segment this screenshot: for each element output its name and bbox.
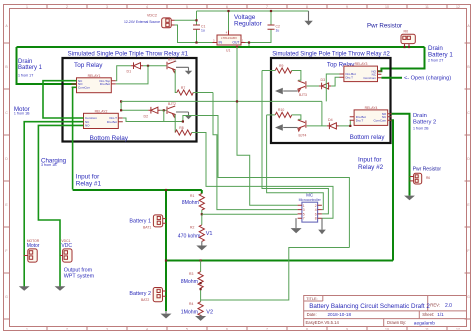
wire R1 to R2 junction	[201, 210, 203, 225]
wire R7 chain to MC pin3	[213, 93, 298, 210]
svg-text:2: 2	[66, 328, 68, 332]
svg-text:D1: D1	[127, 70, 132, 74]
wire R8 right to MC pin8 route	[192, 133, 333, 219]
relay RELAY4	[350, 106, 392, 126]
simulated relay #1 enclosure	[63, 58, 197, 142]
svg-text:8Mohm: 8Mohm	[182, 200, 199, 206]
svg-text:12: 12	[456, 5, 460, 9]
resistor R3	[181, 272, 204, 288]
svg-text:Drawn By:: Drawn By:	[387, 320, 406, 325]
svg-text:V1: V1	[206, 231, 213, 237]
svg-text:Battery 1: Battery 1	[129, 219, 151, 225]
svg-text:Input for: Input for	[76, 174, 100, 181]
svg-text:RELAY4: RELAY4	[365, 106, 378, 110]
diode D1	[127, 62, 144, 73]
resistor R1	[182, 194, 205, 211]
svg-text:Dro.Bot: Dro.Bot	[107, 120, 117, 124]
wire rail corner into R1	[201, 190, 203, 194]
svg-text:2.0: 2.0	[445, 303, 452, 309]
svg-text:RELAY2: RELAY2	[95, 109, 108, 113]
svg-text:1: 1	[26, 5, 28, 9]
svg-text:8: 8	[306, 328, 308, 332]
gray arrow net marker BJT1 collector	[175, 61, 192, 74]
wire relay1 DroBot up to D1 node	[116, 66, 148, 84]
wire BJT1 emitter down to R7	[175, 70, 177, 93]
wire connector VDC2 pin2 down to IN rail	[175, 25, 213, 43]
label Drain Battery 1 left	[18, 59, 43, 71]
wire relay2 NC to Motor	[24, 122, 83, 287]
resistor R9	[275, 64, 291, 73]
ground under pwr resistor 2	[404, 196, 415, 201]
wire R10 left through wall to channel	[267, 114, 276, 116]
svg-text:D2: D2	[144, 115, 149, 119]
wire D4 to relay4 DroT	[339, 120, 350, 126]
svg-text:BJT2: BJT2	[168, 102, 176, 106]
svg-text:Battery Balancing Circuit Sche: Battery Balancing Circuit Schematic Draf…	[309, 303, 430, 310]
svg-text:TITLE:: TITLE:	[306, 297, 317, 301]
svg-text:F: F	[467, 249, 469, 253]
svg-text:ComCom: ComCom	[363, 76, 376, 80]
svg-text:1/1: 1/1	[437, 312, 444, 317]
wire BJT3 base to D3	[307, 85, 319, 87]
wire V1 sense to MC pin5	[202, 213, 298, 215]
border zone tick marks bottom	[47, 327, 447, 331]
svg-text:BJT4: BJT4	[299, 133, 307, 137]
svg-text:R4: R4	[189, 302, 193, 306]
resistor R2	[178, 225, 213, 242]
wire loop riser to long chain	[183, 116, 350, 248]
svg-text:D4: D4	[328, 118, 333, 122]
svg-text:1Mohm: 1Mohm	[181, 309, 198, 315]
svg-text:Pwr Resistor: Pwr Resistor	[367, 23, 402, 30]
svg-text:Battery 2: Battery 2	[129, 291, 151, 297]
title block frame	[304, 296, 467, 327]
svg-text:12: 12	[456, 328, 460, 332]
wire channel crossing down to D2 row	[121, 101, 148, 110]
gray arrow net marker BJT4	[275, 124, 298, 130]
wire riser loop to D2 node	[163, 110, 165, 121]
ground under R4	[195, 315, 206, 321]
connector VDC1	[60, 239, 72, 262]
svg-text:Relay #1: Relay #1	[76, 181, 102, 188]
wire relay2 DroT loop to D2 node	[123, 118, 183, 122]
svg-text:7: 7	[266, 328, 268, 332]
wire channel crossing into box2	[121, 100, 322, 102]
wire VDC down to ground	[59, 256, 61, 287]
wire channel vertical from bus to MC pin1	[237, 47, 298, 205]
label Output from WPT system	[64, 268, 95, 280]
svg-text:1: 1	[26, 328, 28, 332]
junction dot after D2	[163, 109, 165, 111]
svg-text:<- Open (charging): <- Open (charging)	[404, 76, 451, 82]
wire relay2 NO to charging net	[38, 125, 83, 255]
svg-text:12-24V External Source: 12-24V External Source	[124, 20, 160, 24]
transistor BJT3	[298, 81, 307, 97]
wire bottom rail thick	[166, 260, 393, 262]
relay RELAY2	[79, 109, 123, 128]
svg-text:Battery 1: Battery 1	[18, 65, 43, 71]
wire rail down into R3	[200, 261, 202, 272]
wire relay1 ComCon down to battery rail	[73, 87, 77, 189]
svg-text:R2: R2	[190, 226, 194, 230]
transistor BJT4	[298, 120, 307, 137]
svg-text:1 from 1B: 1 from 1B	[14, 111, 30, 115]
label Input for Relay #1	[76, 174, 102, 188]
battery BAT2	[129, 288, 166, 302]
svg-text:U1: U1	[226, 49, 230, 53]
border zone tick marks top	[47, 5, 447, 9]
svg-text:Bottom relay: Bottom relay	[350, 134, 386, 141]
wire bus right loop to relay3 NO	[378, 47, 425, 71]
wire R9 right down to BJT3 collector	[292, 71, 301, 81]
microcontroller MC	[298, 192, 322, 222]
svg-text:4: 4	[146, 328, 148, 332]
wire D2 to BJT2 base	[160, 109, 166, 111]
wire bus left drop to relay1 NO	[17, 47, 77, 84]
svg-text:Battery 2: Battery 2	[413, 119, 436, 125]
svg-text:R0: R0	[404, 30, 409, 34]
gray arrow net marker BJT2 collector	[176, 112, 192, 119]
svg-text:2018-10-18: 2018-10-18	[328, 312, 352, 317]
svg-text:aegalamb: aegalamb	[414, 321, 435, 327]
svg-text:RELAY3: RELAY3	[355, 62, 368, 66]
svg-text:6: 6	[226, 5, 228, 9]
svg-text:Dro.Bot: Dro.Bot	[100, 82, 110, 86]
svg-text:5: 5	[186, 328, 188, 332]
wire R9 left through wall to channel	[262, 70, 275, 72]
svg-text:10: 10	[385, 5, 389, 9]
svg-text:RELAY1: RELAY1	[88, 74, 101, 78]
capacitor C2	[268, 25, 280, 33]
svg-text:Bottom Relay: Bottom Relay	[90, 135, 129, 142]
svg-text:LT8123ABV: LT8123ABV	[221, 36, 237, 40]
svg-text:9: 9	[346, 5, 348, 9]
svg-text:Microcontroller: Microcontroller	[299, 198, 322, 202]
ground under Motor wire	[19, 286, 30, 291]
title block text	[306, 297, 440, 325]
resistor R10	[275, 108, 291, 117]
svg-text:8: 8	[306, 5, 308, 9]
svg-text:Input for: Input for	[358, 157, 382, 164]
ground under R2	[196, 241, 207, 250]
wire vertical into C1 top	[196, 11, 198, 25]
svg-text:R9: R9	[279, 64, 283, 68]
svg-text:8Mohm: 8Mohm	[181, 279, 198, 285]
svg-text:R7: R7	[181, 86, 185, 90]
gray arrow net marker BJT3	[275, 88, 298, 94]
svg-text:2: 2	[66, 5, 68, 9]
svg-text:ComCon: ComCon	[78, 86, 90, 90]
svg-text:R6: R6	[426, 176, 430, 180]
wire relay3 ComCom open charging stub	[381, 77, 402, 79]
svg-text:7: 7	[266, 5, 268, 9]
svg-text:Regulator: Regulator	[234, 20, 263, 27]
svg-text:BAT2: BAT2	[141, 298, 149, 302]
relay RELAY1	[72, 74, 116, 93]
wire relay4 NO to pwr resistor 2	[392, 114, 410, 196]
wire BJT4 base to D4	[307, 125, 327, 127]
svg-text:3: 3	[106, 5, 108, 9]
wire U1 pin4 up to ground rail	[228, 11, 230, 31]
svg-text:MC: MC	[306, 192, 314, 197]
svg-text:G: G	[467, 295, 470, 299]
resistor R7	[177, 86, 194, 95]
wire relay3 DroBot down to crossing	[326, 74, 339, 101]
connector MOTOR	[24, 239, 40, 262]
wire ground top rail	[197, 10, 309, 12]
transistor BJT2	[167, 102, 176, 117]
svg-text:R3: R3	[189, 272, 193, 276]
wire U1 OUT to bus drop	[246, 43, 250, 48]
svg-text:R8: R8	[179, 126, 183, 130]
ground under MC pin7	[291, 218, 302, 233]
svg-text:1u: 1u	[201, 29, 205, 33]
diode D4	[327, 118, 339, 129]
wire BJT2 emitter down to R8	[174, 115, 176, 133]
label Drain Battery 1 right	[428, 45, 453, 59]
capacitor C1	[193, 25, 205, 33]
svg-text:VDC: VDC	[61, 243, 72, 249]
wire C2 top to ground rail	[270, 11, 272, 25]
svg-text:1u: 1u	[276, 29, 280, 33]
svg-text:8: 8	[315, 217, 317, 221]
resistor R4	[181, 302, 213, 318]
svg-text:4: 4	[146, 5, 148, 9]
ground under MC pin8	[318, 218, 326, 234]
svg-text:9: 9	[346, 328, 348, 332]
diode D3	[319, 78, 331, 89]
svg-text:REV:: REV:	[430, 303, 440, 308]
svg-text:7: 7	[303, 217, 305, 221]
svg-text:Simulated Single Pole Triple T: Simulated Single Pole Triple Throw Relay…	[272, 51, 390, 57]
wire V2 sense loop to MC area	[201, 248, 350, 301]
wire main 5V bus	[17, 46, 425, 48]
junction dot after D1	[147, 65, 149, 67]
voltage regulator U1	[213, 31, 246, 53]
svg-text:11: 11	[425, 5, 429, 9]
wire relay4 ComCom down right rail	[392, 120, 393, 260]
pwr resistor R6	[410, 173, 431, 184]
label Voltage Regulator	[234, 14, 263, 28]
wire channel R9 feed to MC pin6 loop	[262, 71, 328, 214]
wire channel R10 feed to MC pin4 loop	[267, 115, 324, 210]
wire connector VDC2 pin1 to node	[175, 19, 197, 21]
svg-text:G: G	[5, 295, 8, 299]
wire R3 to R4 junction	[200, 288, 202, 302]
resistor R8	[175, 126, 192, 135]
svg-text:Dro.T: Dro.T	[356, 118, 364, 122]
label Drain Battery 2	[413, 113, 436, 125]
wire D1 to BJT1 base	[143, 65, 166, 67]
border zone tick marks left	[4, 43, 10, 319]
wire relay1 NC down to relay2 ComCon	[43, 81, 84, 118]
ground on top rail	[304, 11, 312, 25]
svg-text:Motor: Motor	[27, 243, 40, 249]
svg-text:VDC2: VDC2	[147, 14, 157, 18]
svg-text:Date:: Date:	[307, 312, 317, 317]
svg-text:R10: R10	[278, 108, 284, 112]
svg-text:BAT1: BAT1	[143, 226, 151, 230]
wire C2 bottom down to OUT rail	[249, 29, 271, 42]
svg-text:2 from 2T: 2 from 2T	[428, 59, 444, 63]
svg-text:Top Relay: Top Relay	[74, 62, 103, 69]
transistor BJT1	[167, 57, 176, 72]
svg-text:Sheet:: Sheet:	[422, 312, 434, 317]
battery BAT1	[129, 215, 166, 230]
diode D2	[144, 107, 161, 119]
svg-text:Drain: Drain	[413, 113, 427, 119]
simulated relay #2 enclosure	[271, 58, 391, 143]
svg-text:NO: NO	[85, 124, 90, 128]
svg-text:WPT system: WPT system	[64, 274, 95, 280]
svg-text:11: 11	[425, 328, 429, 332]
svg-text:5: 5	[186, 5, 188, 9]
svg-text:10: 10	[385, 328, 389, 332]
svg-text:IN: IN	[219, 41, 223, 45]
connector VDC2 (12-24V external source)	[124, 14, 175, 28]
ground under VDC wire	[55, 286, 66, 291]
label Input for Relay #2	[358, 157, 384, 171]
svg-text:1 from 2B: 1 from 2B	[413, 127, 429, 131]
svg-text:1 from 1T: 1 from 1T	[18, 74, 34, 78]
pwr resistor R0	[401, 30, 415, 47]
svg-text:3: 3	[106, 328, 108, 332]
svg-text:470 kohm: 470 kohm	[178, 234, 201, 240]
wire relay1 DroTop to D1 row	[116, 66, 131, 81]
svg-text:Relay #2: Relay #2	[358, 164, 384, 171]
wire battery top rail thick	[73, 189, 202, 191]
wire D3 to relay3 DroT	[331, 77, 339, 86]
junction dots R0 pins on bus	[403, 46, 405, 48]
svg-text:Dro.T: Dro.T	[346, 75, 354, 79]
svg-text:OUT: OUT	[232, 41, 239, 45]
wire R7 right through wall to channel	[193, 92, 213, 94]
svg-text:V2: V2	[206, 309, 213, 315]
relay RELAY3	[340, 62, 382, 82]
svg-text:6: 6	[226, 328, 228, 332]
junction dots top rail	[227, 10, 229, 12]
svg-text:Pwr Resistor: Pwr Resistor	[413, 167, 442, 173]
wire R10 right down to BJT4 collector	[292, 115, 301, 120]
svg-text:EasyEDA V5.5.14: EasyEDA V5.5.14	[306, 320, 340, 325]
svg-text:BJT1: BJT1	[168, 57, 176, 61]
ground under battery 2	[161, 311, 172, 319]
wire crossing down to D4 row	[321, 101, 323, 126]
wire C1 bottom to IN rail	[196, 29, 198, 42]
wire battery1 rail vertical	[165, 190, 167, 311]
svg-text:ComCom: ComCom	[374, 118, 387, 122]
svg-text:D3: D3	[321, 78, 326, 82]
svg-text:F: F	[5, 249, 7, 253]
svg-text:3 from 1B: 3 from 1B	[41, 163, 57, 167]
svg-text:BJT3: BJT3	[299, 93, 307, 97]
svg-text:R1: R1	[190, 194, 194, 198]
border zone tick marks right	[465, 43, 471, 319]
svg-text:Drain: Drain	[18, 59, 32, 65]
